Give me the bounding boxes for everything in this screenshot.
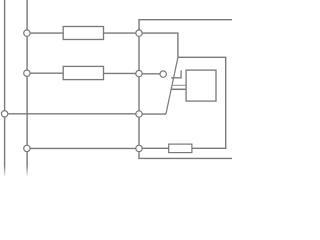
- wire: left bus V1 fading end: [4, 166, 6, 177]
- wire: row2 stub to open contact: [142, 73, 159, 75]
- wire: row1 from terminal to R1: [30, 32, 63, 34]
- mechanical link lower line: [171, 88, 186, 90]
- wire: left bus V1 vertical: [4, 0, 6, 166]
- node terminal circle on V1 row 3: [1, 111, 7, 117]
- switch arm (movable contact): [166, 58, 178, 115]
- wire: row2 from terminal to R2: [30, 72, 63, 74]
- contact seat hook: [171, 70, 181, 77]
- wire: row1 from R1 to junction: [104, 32, 136, 34]
- wire: riser from junction up and top rail to right edge: [139, 20, 232, 30]
- junction node circle row3 / mid bus: [136, 111, 142, 117]
- mechanical link upper line: [172, 84, 186, 86]
- wire: row2 from R2 to junction: [104, 72, 136, 74]
- wire: second bus V2 fading end: [26, 166, 28, 177]
- wire: row4 from terminal to junction: [30, 147, 135, 149]
- wire: bottom rail from mid bus to right edge: [138, 157, 232, 159]
- node terminal circle on V2 row 4: [24, 145, 30, 151]
- junction node circle row1 / mid bus: [136, 30, 142, 36]
- wire: mid bus vertical x=139 connecting junctions: [138, 36, 140, 157]
- wire: row1 continuing right then down to switch pivot: [142, 33, 178, 57]
- wire: row4 from junction to R3: [142, 147, 168, 149]
- wire: from R3 right side up to switch feed rail: [178, 57, 226, 148]
- actuator coil box K1: [186, 70, 216, 101]
- wire: row3 from terminal across V2 to junction: [8, 113, 136, 115]
- wire: row3 stub to switch arm base: [142, 113, 166, 115]
- resistor R1 (IEC rectangle): [63, 27, 103, 40]
- node terminal circle on V2 row 1: [24, 30, 30, 36]
- junction node circle row2 / mid bus: [136, 70, 142, 76]
- resistor R3 (IEC rectangle): [169, 144, 192, 153]
- junction node circle row4 / mid bus: [136, 145, 142, 151]
- open contact circle of switch: [160, 71, 166, 77]
- node terminal circle on V2 row 2: [24, 70, 30, 76]
- resistor R2 (IEC rectangle): [63, 66, 103, 79]
- wire: second bus V2 vertical: [26, 0, 28, 166]
